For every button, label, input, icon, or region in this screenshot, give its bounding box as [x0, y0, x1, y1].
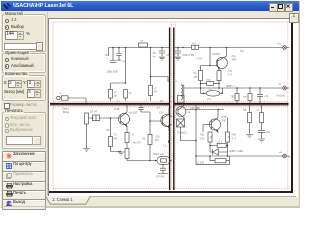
resistor R3	[124, 90, 133, 102]
potentiometer RP1	[85, 113, 93, 148]
svg-text:200u 50B: 200u 50B	[107, 69, 118, 73]
svg-text:+7: +7	[132, 133, 135, 137]
svg-text:ЖМТ x.1Бм: ЖМТ x.1Бм	[230, 149, 244, 153]
wire VD1 to node	[181, 127, 197, 141]
diode VD2	[210, 146, 228, 157]
slider	[4, 43, 43, 51]
title bar	[1, 1, 299, 11]
tab	[45, 196, 91, 205]
terminal +U	[277, 42, 289, 50]
svg-text:470u 6.3B: 470u 6.3B	[182, 53, 194, 57]
resistor Ra	[200, 132, 212, 146]
resistor R8b	[142, 121, 160, 161]
panel right bevel	[47, 12, 48, 196]
fuse FU1	[139, 40, 148, 47]
svg-text:Т/6+: Т/6+	[232, 58, 238, 62]
svg-text:+o: +o	[279, 151, 282, 154]
svg-text:Bxog: Bxog	[63, 110, 69, 114]
page cut line vertical right	[173, 28, 175, 191]
junction dot base node	[110, 117, 112, 119]
svg-text:T/6*: T/6*	[222, 119, 227, 123]
svg-text:a т.: a т.	[157, 107, 161, 110]
inductor L1b	[163, 125, 170, 148]
svg-text:4 х7: 4 х7	[228, 74, 233, 77]
svg-text:tep: tep	[244, 96, 248, 99]
svg-text:T3: T3	[114, 133, 118, 137]
svg-text:2ОС: 2ОС	[200, 138, 205, 141]
svg-text:ЧЗ: ЧЗ	[142, 137, 146, 141]
wire rail to base node	[196, 48, 210, 66]
svg-text:ч 72V: ч 72V	[196, 58, 203, 61]
capacitor C8	[258, 130, 271, 138]
bridge VD1	[177, 119, 185, 127]
resistor Rd	[210, 156, 230, 165]
svg-text:Т.в: Т.в	[174, 80, 178, 83]
ground gnd1	[175, 57, 181, 60]
svg-text:2Ю: 2Ю	[194, 76, 198, 79]
wire W2 out	[196, 155, 282, 157]
svg-text:Tun(um): Tun(um)	[276, 95, 285, 98]
svg-text:Ч.Л: Ч.Л	[192, 42, 196, 45]
junction dots on rail	[112, 47, 163, 49]
fuse SA1	[192, 42, 199, 49]
svg-text:ч7: ч7	[257, 109, 260, 112]
svg-text:ИУ: ИУ	[160, 100, 164, 103]
transistor VT4	[176, 105, 191, 119]
crystal oval Z1	[201, 88, 223, 101]
wire main left vertical	[195, 105, 197, 165]
wire BR rail	[186, 109, 224, 111]
crystal ZQ1	[154, 152, 172, 164]
page split dotted lines	[53, 22, 288, 189]
ground gnd5	[258, 139, 265, 142]
svg-text:Нд: Нд	[194, 72, 198, 75]
svg-text:(Ib): (Ib)	[240, 50, 244, 53]
group Печатать	[2, 112, 46, 149]
svg-text:ЛЛ: ЛЛ	[154, 91, 158, 94]
wire W1	[209, 145, 228, 147]
transistor VT3	[159, 108, 173, 131]
page cut line horizontal bottom-pages	[50, 104, 289, 106]
terminal -U	[276, 82, 289, 98]
transistor VT5	[203, 110, 227, 133]
svg-text:кТд: кТд	[232, 54, 237, 58]
svg-text:тм: тм	[153, 56, 156, 59]
svg-text:HB: HB	[114, 137, 118, 141]
bottom tab strip	[46, 196, 296, 197]
svg-text:V16: V16	[155, 135, 160, 139]
svg-text:KT: KT	[141, 40, 145, 43]
svg-text:У1б: У1б	[159, 111, 164, 115]
svg-text:ЯмЗ 1.ф: ЯмЗ 1.ф	[154, 152, 164, 156]
capacitor C5 with ground	[159, 48, 170, 61]
svg-text:a: a	[60, 92, 62, 95]
resistor Rc1	[200, 79, 220, 86]
svg-text:TEO: TEO	[231, 96, 236, 99]
resistor Rb1	[217, 70, 233, 89]
svg-text:Лч: Лч	[129, 92, 133, 95]
transistor VT1	[212, 48, 237, 71]
svg-text:+7P ПМ: +7P ПМ	[156, 176, 165, 179]
svg-text:ла: ла	[188, 111, 191, 114]
transistor VT2	[111, 105, 130, 133]
resistor R2	[109, 90, 118, 102]
resistor R5b	[114, 133, 135, 143]
junction dots crystal	[149, 160, 156, 162]
svg-text:+0у 2ЗГ: +0у 2ЗГ	[129, 112, 138, 115]
transformer winding Tv	[178, 85, 185, 103]
svg-text:TmB: TmB	[114, 107, 120, 111]
resistor Rc	[217, 140, 226, 147]
svg-text:х7л: х7л	[207, 98, 212, 101]
resistor Ra1	[194, 71, 203, 89]
svg-text:Т,л: Т,л	[163, 145, 167, 148]
page cut line horizontal top-pages	[50, 103, 289, 105]
svg-text:нтд: нтд	[207, 79, 211, 82]
svg-text:ПВ: ПВ	[243, 109, 247, 112]
label TB	[153, 52, 156, 59]
svg-text:+U: +U	[277, 42, 280, 46]
svg-text:2В: 2В	[114, 94, 117, 97]
page cut line vertical left	[169, 28, 171, 191]
capacitor C6b	[129, 105, 151, 121]
svg-text:KTБ: KTБ	[222, 115, 227, 119]
wire crystal rail	[127, 160, 157, 162]
svg-text:С5: С5	[166, 53, 170, 57]
resistor R9	[243, 105, 252, 134]
svg-text:-U: -U	[278, 82, 281, 86]
capacitor C3 electrolytic	[149, 77, 158, 102]
wire rail left stub	[108, 48, 110, 57]
group Масштаб	[2, 14, 46, 52]
svg-text:х1.2ЛЗ: х1.2ЛЗ	[197, 161, 205, 164]
resistor R8a	[244, 88, 253, 103]
ground gnd4	[246, 135, 253, 138]
resistor R1b	[90, 109, 111, 120]
resistor Rb	[226, 118, 237, 146]
page margin dotted rectangle	[53, 22, 288, 189]
page-number button top right	[289, 13, 299, 23]
ground gnd2	[83, 149, 90, 152]
group Ориентация	[2, 53, 46, 73]
sheet shadow right/bottom	[291, 19, 293, 193]
group Количество	[2, 75, 46, 101]
wire top rail	[109, 47, 170, 49]
junction dots BR rail	[195, 109, 219, 111]
svg-text:ЖМГ ч.т: ЖМГ ч.т	[226, 84, 237, 88]
buttons	[2, 151, 46, 162]
capacitor C6a	[257, 88, 269, 103]
svg-text:+: +	[107, 57, 109, 60]
wire main +U rail	[174, 47, 282, 49]
svg-text:ПЫ: ПЫ	[200, 134, 204, 137]
junction dots rail	[177, 47, 227, 49]
svg-text:ом5: ом5	[288, 156, 293, 159]
wire base net	[201, 65, 218, 71]
svg-text:7Ф: 7Ф	[105, 54, 108, 57]
svg-text:+0н: +0н	[266, 131, 271, 134]
svg-text:Т.ф: Т.ф	[209, 89, 213, 92]
capacitor C4	[105, 48, 117, 63]
svg-text:2Н6: 2Н6	[232, 134, 237, 137]
caption buttons	[269, 3, 278, 12]
ground gnd3	[118, 152, 125, 155]
wire coupling node	[149, 120, 162, 122]
svg-text:+1.2: +1.2	[218, 140, 223, 143]
svg-text:2Л +П: 2Л +П	[90, 109, 97, 113]
resistor R10	[257, 105, 264, 130]
wire drop to lower resistors	[111, 48, 127, 90]
resistor R6b	[118, 143, 129, 161]
resistor R7a	[231, 88, 240, 103]
checkbox	[4, 103, 10, 109]
title text	[13, 3, 73, 9]
wire mid rail	[184, 87, 282, 89]
capacitor C2 with bar	[117, 48, 126, 64]
title bar icon	[3, 3, 11, 10]
resistor R7b	[109, 137, 122, 152]
connector XS1	[57, 92, 86, 103]
capacitor C1	[175, 48, 194, 58]
wire W3	[196, 164, 230, 166]
svg-text:КЗ НВч: КЗ НВч	[212, 53, 221, 56]
svg-text:+Tu: +Tu	[264, 95, 269, 98]
terminal out5	[279, 151, 293, 159]
svg-text:M3: M3	[155, 138, 159, 142]
svg-text:KTx6/12: KTx6/12	[178, 131, 188, 135]
svg-text:гв: гв	[123, 60, 126, 63]
svg-text:НР: НР	[106, 129, 110, 132]
svg-text:2нд: 2нд	[228, 70, 233, 73]
svg-text:4 х7: 4 х7	[232, 138, 237, 141]
wire mid drop	[150, 48, 168, 83]
svg-text:Жx KЛ: Жx KЛ	[133, 141, 141, 145]
wire input node	[110, 118, 112, 137]
capacitor C7b	[156, 164, 169, 178]
